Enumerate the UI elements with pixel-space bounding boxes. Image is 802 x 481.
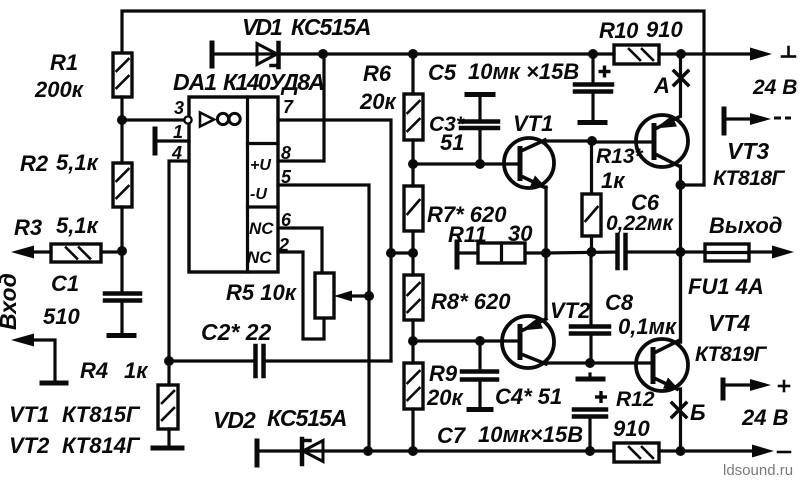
svg-text:КТ819Г: КТ819Г bbox=[695, 343, 768, 366]
resistor R9 20к bbox=[404, 341, 464, 451]
label Выход bbox=[709, 213, 782, 238]
resistor R12 910 bbox=[590, 388, 681, 462]
node C3/VT1-base junction bbox=[475, 159, 485, 169]
svg-text:R5 10к: R5 10к bbox=[226, 280, 298, 305]
transistor Q3 VT3 КТ818Г bbox=[636, 115, 786, 190]
node R7/R8 junction bbox=[408, 248, 418, 258]
node VT3-collector/top-rail junction bbox=[676, 180, 705, 190]
svg-text:VT2: VT2 bbox=[9, 433, 50, 458]
resistor R6 20к bbox=[359, 54, 423, 164]
svg-text:VT3: VT3 bbox=[727, 138, 769, 164]
svg-text:С2* 22: С2* 22 bbox=[201, 319, 272, 345]
svg-text:10мк×15В: 10мк×15В bbox=[478, 422, 583, 447]
svg-text:VD1: VD1 bbox=[242, 14, 282, 40]
svg-text:R10: R10 bbox=[599, 18, 639, 43]
svg-text:R2: R2 bbox=[20, 151, 49, 176]
svg-text:КС515А: КС515А bbox=[267, 405, 346, 431]
node C4/VT2-base junction bbox=[475, 336, 485, 346]
node R12/VT4 bottom rail junction bbox=[676, 446, 686, 456]
svg-text:+U: +U bbox=[250, 157, 271, 174]
svg-text:8: 8 bbox=[281, 143, 291, 163]
watermark ldsound.ru bbox=[723, 462, 793, 479]
svg-text:FU1 4А: FU1 4А bbox=[688, 274, 764, 299]
wire output rail with R11 bbox=[448, 221, 546, 267]
pin 3 input bubble bbox=[174, 98, 192, 124]
resistor R13* 1к bbox=[582, 141, 644, 252]
svg-text:NC: NC bbox=[247, 248, 272, 267]
diode VD2 zener КС515А bbox=[213, 405, 368, 465]
svg-text:VT2: VT2 bbox=[550, 298, 591, 323]
pin 1 stub with bar bbox=[155, 122, 189, 153]
node R8/R9/VT2-base junction bbox=[408, 336, 520, 346]
wire VT3 emitter with point A bbox=[653, 54, 688, 116]
node R10/VT3-emitter junction bbox=[676, 49, 686, 59]
svg-text:5,1к: 5,1к bbox=[56, 213, 100, 238]
label Вход (rotated) bbox=[0, 273, 21, 330]
capacitor C6 0,22мк bbox=[606, 190, 681, 268]
capacitor C7 10мк х15В electrolytic bbox=[437, 374, 607, 451]
svg-text:КТ815Г: КТ815Г bbox=[62, 402, 141, 427]
pin 2 wire to R5 bottom bbox=[278, 235, 324, 339]
svg-text:К140УД8А: К140УД8А bbox=[223, 69, 323, 95]
svg-text:Б: Б bbox=[690, 400, 706, 425]
wire VT4 emitter with point Б bbox=[672, 389, 706, 451]
svg-text:6: 6 bbox=[281, 210, 292, 230]
pin 4 wire down to R4 node bbox=[169, 143, 189, 361]
svg-text:0,1мк: 0,1мк bbox=[618, 314, 678, 339]
input terminal arrow lower with ground stub bbox=[11, 334, 66, 384]
node R2/R3/C1 junction bbox=[117, 246, 127, 256]
svg-text:А: А bbox=[653, 73, 670, 98]
svg-text:R6: R6 bbox=[363, 61, 392, 86]
svg-text:Выход: Выход bbox=[709, 213, 782, 238]
node C5 top rail junction bbox=[588, 49, 598, 59]
svg-text:200к: 200к bbox=[34, 77, 85, 102]
svg-text:С4* 51: С4* 51 bbox=[495, 384, 562, 409]
svg-text:VT1: VT1 bbox=[513, 111, 553, 136]
svg-text:20к: 20к bbox=[426, 385, 464, 410]
op-amp U1 DA1 К140УД8А box bbox=[173, 69, 323, 272]
svg-text:3: 3 bbox=[174, 98, 184, 118]
svg-text:2: 2 bbox=[278, 235, 289, 255]
wire VT2 collector to VT4 base bbox=[544, 361, 653, 364]
node VT1/VT2 emitters output junction bbox=[541, 248, 617, 258]
wire VT4 collector up to output node bbox=[679, 252, 682, 342]
transistor Q1 VT1 bbox=[504, 111, 554, 253]
resistor R7* 620 bbox=[404, 164, 507, 253]
svg-text:510: 510 bbox=[43, 304, 80, 329]
resistor R3 bbox=[14, 213, 122, 262]
svg-text:51: 51 bbox=[440, 130, 464, 155]
svg-text:910: 910 bbox=[613, 416, 650, 441]
svg-text:10мк ×15В: 10мк ×15В bbox=[468, 59, 579, 84]
svg-text:R1: R1 bbox=[50, 50, 78, 75]
svg-text:С5: С5 bbox=[428, 60, 457, 85]
resistor R1 bbox=[34, 50, 132, 120]
svg-text:24 В: 24 В bbox=[741, 405, 789, 430]
svg-text:5,1к: 5,1к bbox=[56, 150, 100, 175]
wire top rail bbox=[122, 11, 704, 185]
node C7 bottom rail junction bbox=[585, 446, 595, 456]
resistor R4 bbox=[80, 358, 182, 448]
capacitor C4* 51 bbox=[462, 341, 562, 410]
+24V terminal top bbox=[681, 47, 797, 99]
node output/VT3VT4 junction bbox=[676, 247, 686, 257]
VT3 external terminal marker bbox=[724, 109, 791, 133]
resistor R10 910 bbox=[593, 17, 683, 64]
svg-text:VT4: VT4 bbox=[708, 310, 750, 336]
svg-text:R9: R9 bbox=[429, 361, 458, 386]
svg-text:-U: -U bbox=[250, 186, 267, 203]
label VT1 КТ815Г bbox=[9, 402, 141, 427]
svg-text:R4: R4 bbox=[80, 358, 108, 383]
transistor Q2 VT2 bbox=[502, 253, 591, 368]
capacitor C3* 51 bbox=[429, 95, 498, 165]
svg-text:910: 910 bbox=[646, 17, 683, 42]
input terminal arrow upper bbox=[11, 246, 34, 259]
svg-text:1к: 1к bbox=[601, 168, 626, 193]
fuse FU1 4А bbox=[681, 244, 794, 299]
diode VD1 zener КС515А bbox=[212, 14, 370, 67]
capacitor C1 bbox=[43, 252, 140, 336]
svg-text:7: 7 bbox=[283, 97, 294, 117]
svg-text:R3: R3 bbox=[14, 215, 42, 240]
svg-text:VD2: VD2 bbox=[213, 407, 256, 433]
pin 6 wire to R5 top bbox=[278, 210, 322, 273]
transistor Q4 VT4 КТ819Г bbox=[636, 310, 768, 391]
capacitor C8 0,1мк bbox=[571, 252, 678, 363]
capacitor C5 10мк х15В electrolytic bbox=[428, 54, 612, 123]
label VT2 КТ814Г bbox=[9, 433, 141, 458]
resistor R2 bbox=[20, 120, 132, 251]
svg-text:R8* 620: R8* 620 bbox=[431, 289, 511, 314]
node R9 bottom rail junction bbox=[408, 446, 590, 456]
svg-text:С8: С8 bbox=[605, 290, 634, 315]
node R6/R7/VT1-base junction bbox=[408, 159, 520, 169]
svg-text:0,22мк: 0,22мк bbox=[606, 212, 674, 235]
svg-text:1к: 1к bbox=[124, 358, 149, 383]
svg-text:R12: R12 bbox=[616, 388, 655, 411]
wire VT3 collector down to output node bbox=[679, 166, 682, 342]
svg-text:20к: 20к bbox=[359, 89, 397, 114]
node VD1/pin8/rail junction bbox=[318, 49, 413, 59]
capacitor C2 in feedback bbox=[169, 319, 391, 376]
node R6 top rail junction bbox=[408, 49, 593, 59]
-24V terminal bottom bbox=[681, 405, 790, 458]
svg-text:С1: С1 bbox=[51, 271, 79, 296]
svg-text:1: 1 bbox=[173, 122, 183, 142]
svg-text:КТ818Г: КТ818Г bbox=[713, 167, 786, 190]
svg-text:КС515А: КС515А bbox=[291, 14, 370, 40]
resistor R8* 620 bbox=[404, 253, 511, 341]
wire VT1 collector rail bbox=[544, 141, 654, 142]
svg-text:30: 30 bbox=[508, 221, 533, 246]
pin 8 +U wire up to VD1 node bbox=[278, 54, 324, 163]
svg-text:DA1: DA1 bbox=[173, 69, 216, 95]
node VT1-collector/R13 junction bbox=[587, 136, 597, 146]
svg-text:R11: R11 bbox=[448, 222, 487, 247]
pin 5 wire to R5 wiper rail bbox=[278, 167, 369, 451]
svg-text:4: 4 bbox=[171, 143, 182, 163]
node R1/R2/pin3 junction bbox=[117, 115, 184, 125]
svg-text:С7: С7 bbox=[437, 423, 467, 448]
svg-text:VT1: VT1 bbox=[9, 402, 49, 427]
node VD2/wiper-rail junction bbox=[363, 446, 413, 456]
pin 7 output wire bbox=[278, 97, 391, 361]
VT4 external terminal marker bbox=[723, 379, 789, 398]
potentiometer R5 10к bbox=[226, 273, 374, 318]
node pin4/R4/C2 junction bbox=[164, 356, 174, 366]
node feedback/R7R8 junction bbox=[386, 248, 413, 258]
svg-text:R13*: R13* bbox=[596, 145, 644, 168]
svg-text:КТ814Г: КТ814Г bbox=[62, 433, 141, 458]
node C8/C7/VT4-base junction bbox=[585, 358, 595, 368]
svg-text:5: 5 bbox=[281, 167, 292, 187]
svg-text:Вход: Вход bbox=[0, 273, 21, 330]
svg-text:NC: NC bbox=[249, 219, 274, 238]
node R13/C8/output-rail junction bbox=[587, 247, 597, 257]
svg-text:ldsound.ru: ldsound.ru bbox=[723, 462, 793, 479]
svg-text:24 В: 24 В bbox=[752, 76, 797, 99]
